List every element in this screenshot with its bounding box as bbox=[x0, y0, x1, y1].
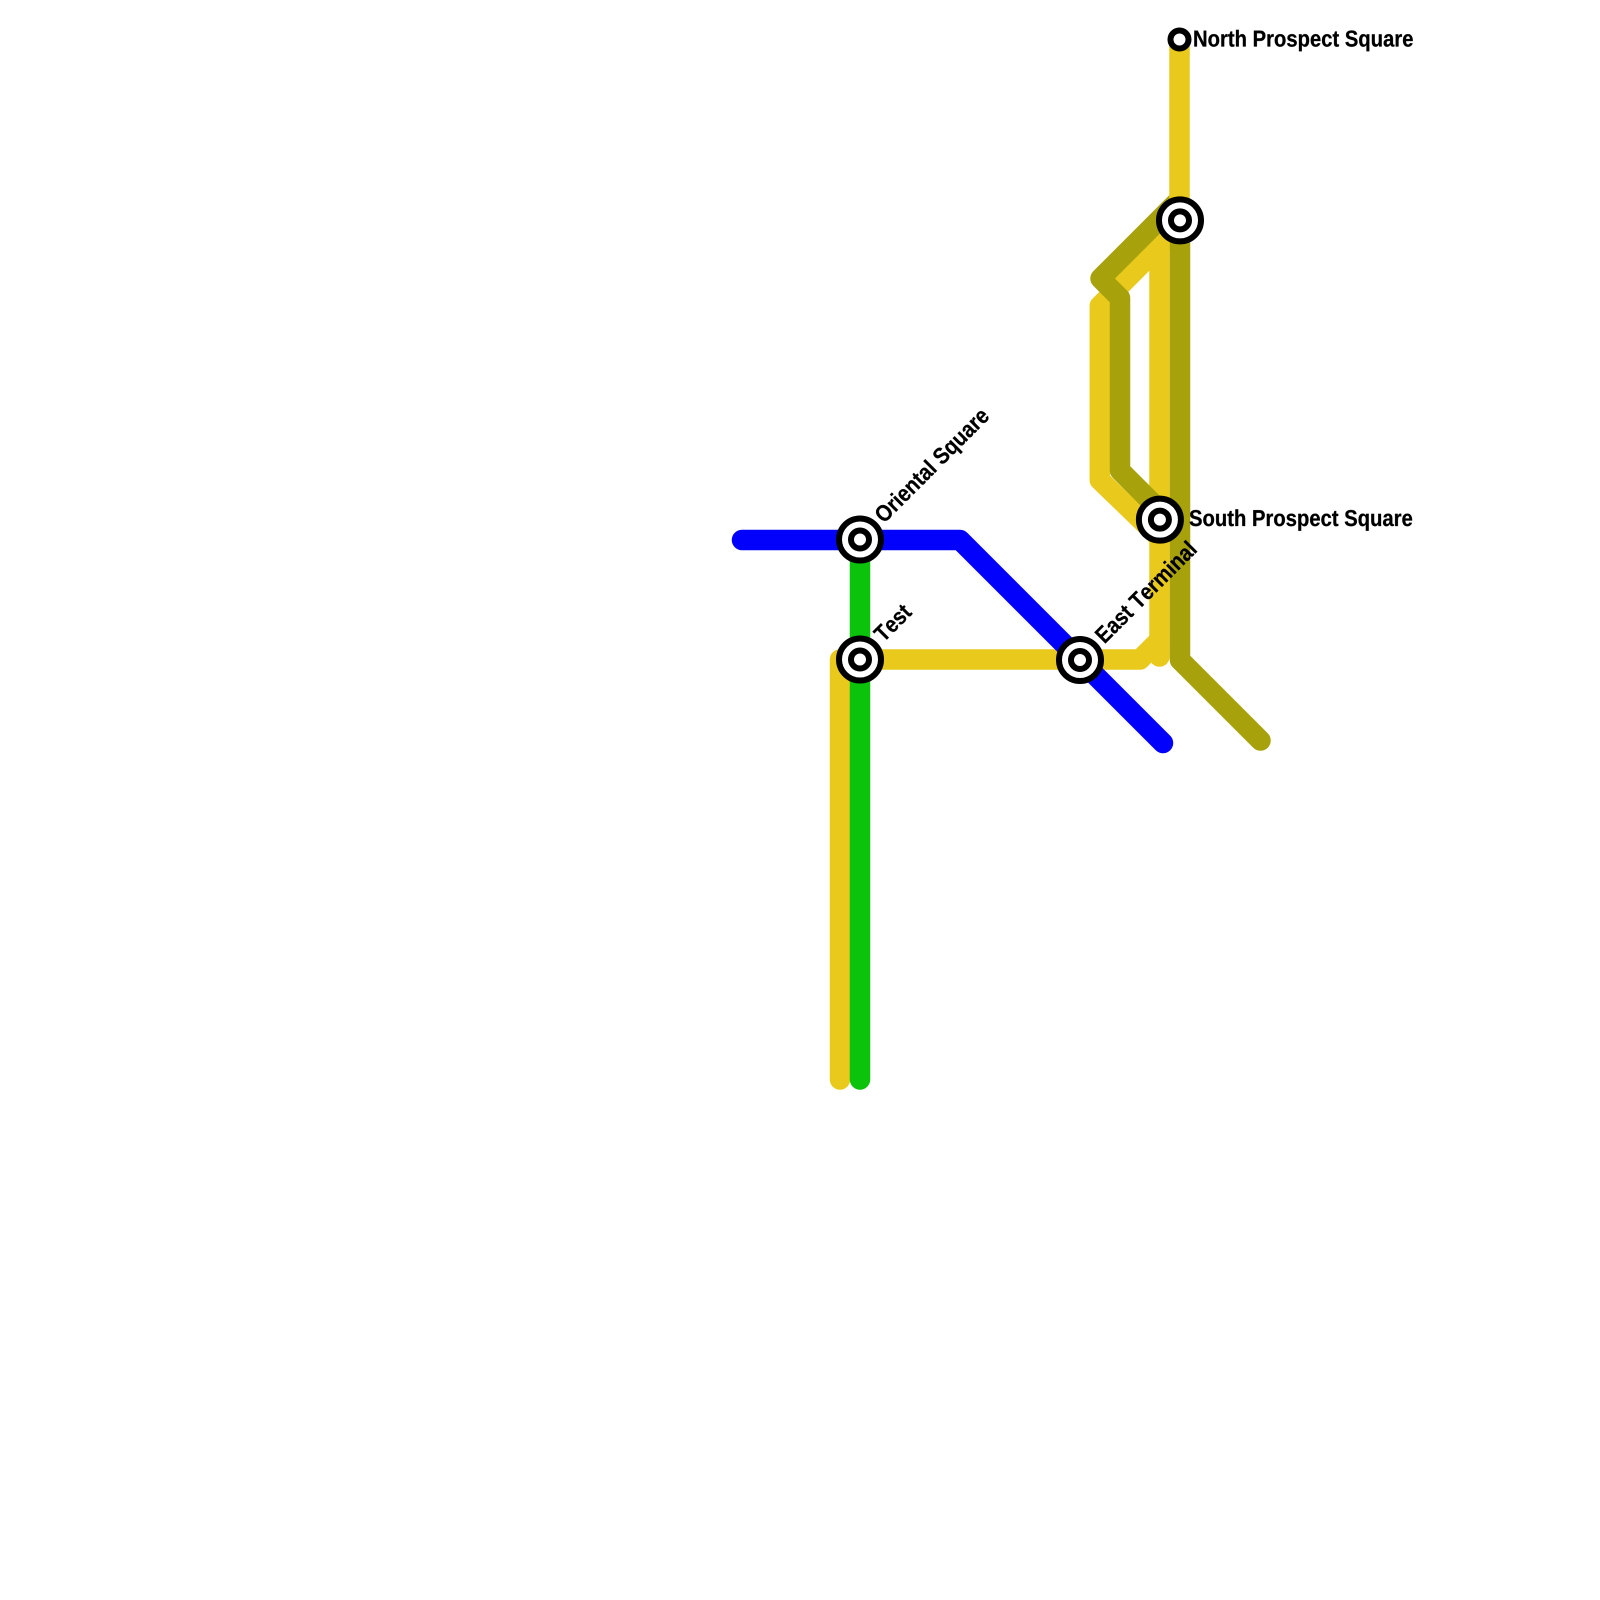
station North Prospect Square (small) bbox=[1171, 31, 1189, 49]
label South Prospect Square bbox=[1190, 509, 1413, 530]
station Test bbox=[839, 639, 881, 681]
wire: green line (Oriental Square south through Test to south end) bbox=[850, 545, 871, 1080]
station East Terminal bbox=[1059, 639, 1101, 681]
wire: yellow line North Prospect Square to interchange A bbox=[1169, 40, 1190, 231]
label East Terminal (rotated) bbox=[1094, 540, 1198, 644]
wire: blue line (west end - Oriental Square - diagonal southeast through East Terminal) bbox=[742, 540, 1163, 743]
label North Prospect Square bbox=[1194, 30, 1412, 51]
wire: yellow loop west branch (A down-left, down, down-right merging into main) bbox=[1100, 226, 1180, 538]
label Oriental Square (rotated) bbox=[873, 406, 994, 527]
label Test (rotated) bbox=[872, 603, 912, 643]
wire: yellow main west branch (corner jog - East Terminal - Test - south end) bbox=[840, 640, 1160, 1080]
station interchange A bbox=[1159, 199, 1201, 241]
station South Prospect Square bbox=[1139, 499, 1181, 541]
station Oriental Square bbox=[839, 519, 881, 561]
wire: olive loop west branch (A down-left, jog, down, down-right to South Prospect Square) bbox=[1101, 199, 1181, 513]
wire: olive main line (A south then diagonal southeast end) bbox=[1180, 212, 1261, 741]
wire: yellow main vertical (A to South Prospect Square to corner stub) bbox=[1149, 222, 1170, 657]
